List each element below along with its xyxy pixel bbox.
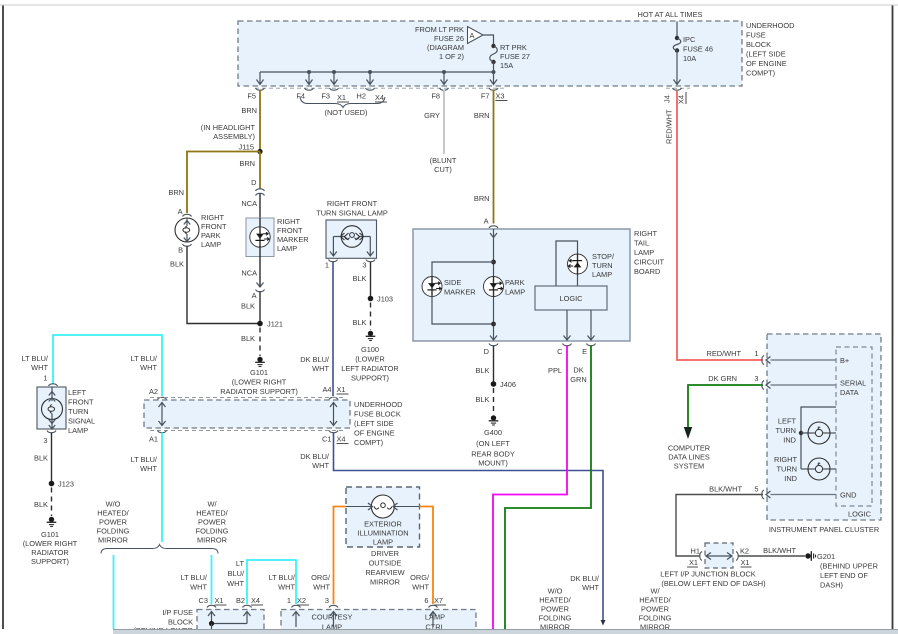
svg-text:3: 3 (325, 596, 329, 605)
svg-text:WHT: WHT (278, 583, 295, 592)
svg-text:WHT: WHT (313, 583, 330, 592)
svg-text:BRN: BRN (168, 188, 184, 197)
label X7 (434, 596, 446, 605)
right front marker lamp box (246, 218, 274, 257)
svg-text:FUSE 27: FUSE 27 (500, 52, 530, 61)
svg-text:PPL: PPL (548, 366, 562, 375)
stop/turn lamp LED (568, 254, 588, 274)
label X2 (297, 596, 309, 605)
label DK BLU/WHT (300, 355, 330, 373)
svg-text:BLU/: BLU/ (228, 569, 245, 578)
svg-text:WHT: WHT (582, 583, 599, 592)
label X4 (B2) (251, 596, 263, 605)
svg-text:LEFT END OF: LEFT END OF (820, 571, 868, 580)
svg-text:(LOWER RIGHT: (LOWER RIGHT (232, 378, 287, 387)
label RIGHT FRONT PARK LAMP (201, 213, 227, 249)
svg-text:(LEFT SIDE: (LEFT SIDE (746, 50, 786, 59)
label LT BLU/WHT (pin 1 courtesy) (269, 573, 296, 592)
inline connector A (256, 283, 265, 292)
svg-text:DATA LINES: DATA LINES (668, 453, 710, 462)
svg-text:BRN: BRN (241, 106, 257, 115)
wire DK BLU/WHT C1 down right and down (334, 433, 606, 626)
cluster pin 3 connector (762, 381, 836, 390)
label I/P FUSE BLOCK (133, 608, 193, 634)
marker lamp LED (250, 218, 270, 257)
svg-text:SUPPORT): SUPPORT) (31, 557, 69, 566)
dashed wire to G400 (493, 388, 495, 415)
svg-text:G201: G201 (817, 552, 835, 561)
svg-text:DK: DK (573, 366, 583, 375)
svg-text:ORG/: ORG/ (410, 573, 430, 582)
svg-text:SUPPORT): SUPPORT) (351, 374, 389, 383)
left i/p junction block box (705, 543, 733, 568)
park lamp LED (484, 277, 504, 297)
connector face dashes (top of fuse block 2) (150, 397, 344, 399)
wire BLK pin3 to J103 (370, 262, 372, 299)
svg-text:GRY: GRY (424, 111, 440, 120)
connector cup pin 3 (366, 260, 375, 262)
connector cup E (587, 344, 596, 346)
svg-text:DATA: DATA (840, 388, 859, 397)
svg-text:MIRROR: MIRROR (197, 536, 227, 545)
svg-text:EXTERIOR: EXTERIOR (364, 520, 402, 529)
label DK GRN (570, 366, 586, 385)
junction block right connector (727, 552, 738, 561)
svg-text:FOLDING: FOLDING (97, 527, 130, 536)
label LT BLU/WHT (131, 455, 158, 473)
svg-text:F7: F7 (481, 92, 490, 101)
svg-text:MARKER: MARKER (444, 288, 476, 297)
svg-text:TURN: TURN (775, 426, 796, 435)
svg-text:DRIVER: DRIVER (371, 549, 399, 558)
svg-text:FUSE: FUSE (746, 31, 766, 40)
drop H2 (367, 72, 374, 85)
svg-text:IND: IND (783, 436, 796, 445)
junction block left connector (700, 552, 711, 561)
connector face dashed line below top box (255, 87, 506, 89)
svg-text:FUSE 46: FUSE 46 (683, 45, 713, 54)
svg-text:C: C (557, 347, 563, 356)
label W/O HEATED POWER FOLDING MIRROR (bottom) (539, 587, 572, 632)
wire LT BLU/WHT right branch to C3 (211, 555, 213, 604)
svg-text:J123: J123 (58, 480, 74, 489)
title RIGHT FRONT TURN SIGNAL LAMP (316, 199, 388, 218)
dashed wire to G100 (370, 303, 372, 331)
svg-text:TURN: TURN (776, 465, 797, 474)
svg-text:MARKER: MARKER (277, 235, 309, 244)
connector cup F7 (489, 88, 498, 90)
svg-text:B+: B+ (840, 356, 849, 365)
logic output C (564, 310, 571, 340)
underhood fuse block label (746, 21, 794, 78)
svg-text:GRN: GRN (570, 375, 586, 384)
label DK BLU/WHT (C1) (300, 452, 330, 470)
drop IPC (674, 51, 681, 85)
svg-text:WHT: WHT (140, 363, 157, 372)
ground G201 (805, 551, 815, 561)
svg-text:CUT): CUT) (434, 165, 452, 174)
left turn ind bulb (801, 422, 836, 444)
svg-text:D: D (251, 178, 256, 187)
label LT BLU/WHT (A2) (131, 354, 158, 372)
junction J115 (257, 149, 262, 154)
svg-text:J103: J103 (377, 295, 393, 304)
bus junction dots (307, 70, 311, 74)
svg-text:WHT: WHT (227, 579, 244, 588)
FROM LT PRK FUSE 26 label (415, 25, 464, 61)
svg-text:COMPUTER: COMPUTER (668, 444, 710, 453)
svg-text:A4: A4 (322, 385, 331, 394)
svg-text:RIGHT: RIGHT (201, 213, 224, 222)
dashed wire to G101 (51, 488, 53, 517)
fuse RT PRK FUSE 27 15A (490, 44, 498, 64)
svg-text:3: 3 (754, 374, 758, 383)
connector cup A4 (329, 397, 338, 399)
wire BRN J115 to D (259, 152, 261, 189)
svg-text:(NOT USED): (NOT USED) (325, 108, 368, 117)
svg-text:J115: J115 (239, 143, 254, 152)
svg-text:LAMP: LAMP (592, 270, 612, 279)
svg-text:POWER: POWER (198, 518, 226, 527)
svg-text:C1: C1 (322, 435, 331, 444)
svg-text:X7: X7 (434, 596, 443, 605)
svg-text:BLK: BLK (353, 318, 367, 327)
svg-text:DASH): DASH) (820, 581, 843, 590)
svg-text:I/P FUSE: I/P FUSE (162, 608, 193, 617)
svg-text:BRN: BRN (474, 111, 490, 120)
svg-text:LOGIC: LOGIC (848, 510, 872, 519)
svg-text:NCA: NCA (241, 269, 257, 278)
label SERIAL DATA (840, 379, 866, 398)
svg-text:X4: X4 (375, 93, 384, 102)
wire DK BLU/WHT pin1 to A4 (332, 262, 334, 396)
label G400 on left rear body mount (471, 428, 515, 468)
double arrow A2-A1 (159, 403, 166, 426)
ground G400 (489, 415, 499, 425)
ground G101 (left) (47, 517, 57, 527)
svg-text:3: 3 (362, 261, 366, 270)
connector cup C (563, 344, 572, 346)
label LEFT FRONT TURN SIGNAL LAMP (68, 388, 95, 435)
svg-text:A1: A1 (149, 435, 158, 444)
svg-text:BLK: BLK (34, 500, 48, 509)
wire DK GRN from E (505, 346, 591, 630)
svg-text:COMPT): COMPT) (746, 69, 775, 78)
label X1 (K2) (741, 558, 752, 567)
svg-text:BLK: BLK (241, 302, 255, 311)
svg-text:(BLUNT: (BLUNT (430, 156, 457, 165)
svg-text:X1: X1 (337, 385, 346, 394)
junction dot (209, 621, 214, 626)
svg-text:(LOWER: (LOWER (355, 355, 385, 364)
svg-text:TURN SIGNAL LAMP: TURN SIGNAL LAMP (316, 209, 388, 218)
svg-text:BLOCK: BLOCK (746, 40, 771, 49)
svg-text:TURN: TURN (592, 261, 613, 270)
side marker LED (422, 277, 442, 297)
label STOP/TURN LAMP (592, 252, 615, 279)
cluster pin 5 connector (762, 490, 836, 499)
page right border (892, 5, 894, 629)
wire LT BLU/WHT left branch (113, 555, 115, 629)
svg-text:UNDERHOOD: UNDERHOOD (746, 21, 794, 30)
svg-text:LT BLU/: LT BLU/ (131, 455, 158, 464)
svg-text:FOLDING: FOLDING (639, 614, 672, 623)
svg-text:BLK/WHT: BLK/WHT (763, 546, 796, 555)
pin label X3 (496, 92, 508, 101)
svg-text:LT: LT (236, 559, 245, 568)
wire ORG/WHT left (334, 507, 347, 605)
svg-text:X1: X1 (337, 93, 346, 102)
label LT BLU/WHT (left lamp) (22, 354, 49, 372)
svg-text:DK BLU/: DK BLU/ (300, 355, 330, 364)
label SIDE MARKER (444, 278, 476, 297)
svg-text:LAMP: LAMP (277, 244, 297, 253)
svg-text:WHT: WHT (190, 583, 207, 592)
i/p fuse block internal wire (212, 623, 248, 625)
svg-text:LEFT I/P JUNCTION BLOCK: LEFT I/P JUNCTION BLOCK (660, 570, 755, 579)
right front turn signal bulb (330, 226, 374, 256)
svg-text:UNDERHOOD: UNDERHOOD (354, 400, 402, 409)
svg-text:(BELOW LEFT END OF DASH): (BELOW LEFT END OF DASH) (661, 579, 765, 588)
svg-text:BRN: BRN (474, 194, 490, 203)
svg-text:X1: X1 (215, 596, 224, 605)
svg-text:INSTRUMENT PANEL CLUSTER: INSTRUMENT PANEL CLUSTER (769, 525, 879, 534)
junction block internal wire (706, 555, 732, 557)
svg-text:6: 6 (424, 596, 428, 605)
label LEFT TURN IND (775, 417, 796, 445)
wire RED/WHT to cluster pin 1 (677, 91, 763, 360)
connector cup A2 (158, 397, 167, 399)
svg-text:(LOWER RIGHT: (LOWER RIGHT (23, 539, 78, 548)
svg-text:FRONT: FRONT (277, 226, 303, 235)
wire BLK to J121 (259, 292, 261, 324)
wire ORG/WHT right (420, 507, 434, 605)
svg-text:LT BLU/: LT BLU/ (22, 354, 49, 363)
svg-text:E: E (582, 347, 587, 356)
junction dot left turn (799, 431, 803, 435)
svg-text:W/O: W/O (106, 500, 121, 509)
wire DK GRN serial data (688, 385, 763, 427)
connector cup pin 1 (49, 384, 58, 386)
inline connector D (256, 189, 265, 196)
page left border (2, 5, 4, 629)
connector cup J4/X4 (673, 88, 682, 90)
page top border (0, 4, 898, 6)
wire NCA to marker lamp (259, 194, 261, 219)
left front turn signal bulb (42, 387, 63, 429)
courtesy entry arrow 3 (330, 612, 337, 628)
svg-text:1: 1 (325, 261, 329, 270)
svg-text:K2: K2 (740, 547, 749, 556)
svg-text:FUSE 26: FUSE 26 (434, 34, 464, 43)
junction J103 (368, 296, 374, 302)
branch to side marker (432, 262, 494, 278)
right turn ind bulb (801, 458, 836, 480)
svg-text:RIGHT FRONT: RIGHT FRONT (327, 199, 378, 208)
wire LT BLU/WHT A1 down to brace (161, 433, 163, 543)
svg-text:H1: H1 (691, 547, 700, 556)
label UNDERHOOD FUSE BLOCK 2 (354, 400, 402, 447)
svg-text:HOT AT ALL TIMES: HOT AT ALL TIMES (638, 10, 703, 19)
wire GRY from F8 (blunt cut) (443, 90, 445, 155)
svg-text:HEATED/: HEATED/ (97, 509, 129, 518)
wire BRN from F5 to J115 (259, 90, 261, 152)
svg-text:RADIATOR: RADIATOR (31, 548, 69, 557)
wire BLK from park lamp to J121 (187, 246, 260, 324)
svg-text:RIGHT: RIGHT (774, 455, 797, 464)
svg-text:LAMP: LAMP (201, 240, 221, 249)
svg-text:ORG/: ORG/ (311, 573, 331, 582)
label DK BLU/WHT (bottom) (570, 574, 600, 592)
lamp ctrl entry arrow 6 (430, 612, 437, 628)
bottom toolbar strip (113, 630, 898, 634)
junction J121 (257, 321, 263, 327)
wire BLK to J123 (51, 433, 53, 484)
svg-text:WHT: WHT (31, 363, 48, 372)
svg-text:A: A (470, 31, 475, 40)
svg-text:B: B (178, 246, 183, 255)
label X4 (337, 435, 349, 444)
connector cup F8 (440, 88, 449, 90)
svg-text:SERIAL: SERIAL (840, 379, 866, 388)
courtesy lamp box (281, 610, 476, 634)
double arrow A4-C1 (330, 403, 337, 426)
svg-text:X4: X4 (251, 596, 260, 605)
svg-text:(BEHIND UPPER: (BEHIND UPPER (820, 562, 878, 571)
svg-text:J4: J4 (663, 95, 672, 103)
label PARK LAMP (505, 278, 525, 297)
svg-text:DK BLU/: DK BLU/ (300, 452, 330, 461)
ground G101 (255, 357, 265, 367)
svg-text:G100: G100 (361, 345, 379, 354)
label LT BLU/WHT (B2) (227, 559, 245, 588)
drop F3 (331, 72, 338, 85)
IPC fuse feed wire (676, 22, 678, 39)
underhood fuse block 2 box (144, 400, 350, 428)
RT PRK FUSE 27 15A label (500, 43, 530, 70)
logic inner box (836, 347, 872, 506)
svg-text:GND: GND (840, 491, 856, 500)
svg-text:LAMP: LAMP (505, 288, 525, 297)
exterior illumination bulb (346, 495, 420, 518)
turn indicator feed (801, 407, 836, 469)
svg-text:HEATED/: HEATED/ (196, 509, 228, 518)
svg-text:J406: J406 (500, 380, 516, 389)
pin label X4 (rotated, underlined) (677, 92, 687, 104)
svg-text:MIRROR: MIRROR (98, 536, 128, 545)
svg-text:B2: B2 (236, 596, 245, 605)
label X1 (H1) (687, 558, 698, 567)
svg-text:1: 1 (287, 596, 291, 605)
label BLUNT CUT (430, 156, 457, 174)
svg-text:(ON LEFT: (ON LEFT (476, 439, 510, 448)
right front turn signal lamp box (326, 220, 377, 258)
svg-text:CIRCUIT: CIRCUIT (634, 258, 664, 267)
label W/ HEATED POWER FOLDING MIRROR (bottom) (639, 587, 672, 632)
svg-text:SIGNAL: SIGNAL (68, 417, 95, 426)
label IN HEADLIGHT ASSEMBLY (201, 123, 256, 141)
svg-text:NCA: NCA (241, 199, 257, 208)
brace split (101, 545, 218, 554)
label EXTERIOR ILLUMINATION LAMP (357, 520, 408, 547)
connector face dashes X4/J4 (666, 87, 690, 89)
label W/ HEATED POWER FOLDING MIRROR (196, 500, 229, 545)
svg-text:X2: X2 (297, 596, 306, 605)
svg-text:BLK: BLK (170, 260, 184, 269)
svg-text:WHT: WHT (312, 461, 329, 470)
wire marker lamp down (259, 257, 261, 288)
right tail lamp circuit board box (413, 229, 630, 341)
fuse IPC FUSE 46 10A (673, 36, 681, 53)
label RIGHT FRONT MARKER LAMP (277, 217, 309, 253)
svg-text:DK GRN: DK GRN (708, 374, 737, 383)
wire BRN from F7 to tail board (493, 90, 495, 224)
connector cup F5 (256, 88, 265, 90)
svg-text:WHT: WHT (412, 583, 429, 592)
svg-text:1: 1 (754, 349, 758, 358)
not used brace (300, 97, 385, 108)
wire BLK/WHT pin5 to junction block (676, 495, 763, 557)
svg-text:FOLDING: FOLDING (539, 614, 572, 623)
svg-text:TURN: TURN (68, 407, 89, 416)
svg-text:REARVIEW: REARVIEW (365, 568, 404, 577)
i/p fuse block entry arrow C3 (208, 612, 215, 624)
svg-text:BLK: BLK (353, 274, 367, 283)
label ORG/WHT left (311, 573, 331, 592)
connector face dashes (bottom of fuse block 2) (150, 430, 344, 432)
svg-text:SYSTEM: SYSTEM (674, 462, 704, 471)
label LT BLU/WHT (C3) (181, 573, 208, 592)
svg-text:F5: F5 (247, 92, 256, 101)
svg-text:X4: X4 (337, 435, 346, 444)
junction J123 (49, 481, 55, 487)
svg-text:RED/WHT: RED/WHT (665, 109, 674, 144)
left front turn signal lamp box (37, 387, 66, 429)
svg-text:DK BLU/: DK BLU/ (570, 574, 600, 583)
i/p fuse block entry arrow B2 (244, 612, 251, 624)
junction dot bottom (491, 322, 496, 327)
svg-text:COURTESY: COURTESY (312, 613, 353, 622)
connector cup pin 1 (329, 260, 338, 262)
computer data lines arrow (684, 427, 692, 439)
svg-text:HEATED/: HEATED/ (639, 596, 671, 605)
svg-text:POWER: POWER (541, 605, 569, 614)
i/p fuse block box (197, 610, 264, 634)
svg-text:F3: F3 (321, 92, 330, 101)
label W/O HEATED POWER FOLDING MIRROR (97, 500, 130, 545)
connector A cup (183, 214, 192, 216)
svg-text:G101: G101 (41, 530, 59, 539)
courtesy entry arrow 1 (293, 612, 300, 628)
svg-text:LT BLU/: LT BLU/ (269, 573, 296, 582)
cyan LT BLU/WHT header wire (53, 335, 162, 396)
side marker return wire (432, 295, 494, 324)
connector cup 3 (329, 605, 338, 607)
pin label X4 (375, 93, 387, 102)
connector cup H2 (366, 88, 375, 90)
label G101 lower right radiator support (23, 530, 78, 566)
svg-text:1 OF 2): 1 OF 2) (439, 52, 464, 61)
label COURTESY LAMP (312, 613, 353, 632)
svg-text:SIDE: SIDE (444, 278, 461, 287)
svg-text:G400: G400 (484, 428, 502, 437)
label RIGHT TAIL LAMP CIRCUIT BOARD (634, 229, 664, 276)
i/p fuse block wire down (211, 624, 213, 631)
svg-text:RIGHT: RIGHT (634, 229, 657, 238)
svg-text:X3: X3 (496, 92, 505, 101)
svg-text:BLK/WHT: BLK/WHT (709, 485, 742, 494)
svg-text:A: A (178, 207, 183, 216)
